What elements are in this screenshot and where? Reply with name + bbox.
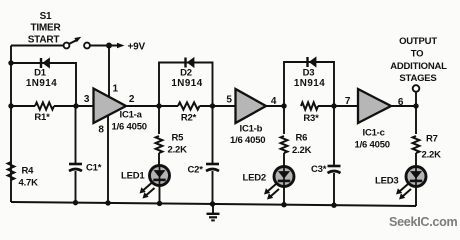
label S1 TIMER START	[28, 11, 62, 46]
left rail wire	[10, 46, 12, 203]
svg-text:2.2K: 2.2K	[422, 150, 442, 161]
wire: node 3 to pin 7	[318, 105, 358, 107]
op-amp buffer U1b IC1-b	[236, 89, 267, 123]
svg-text:R6: R6	[296, 133, 308, 144]
node: RC node 3	[331, 103, 336, 108]
label R5 2.2K	[168, 133, 188, 156]
label OUTPUT TO ADDITIONAL STAGES	[390, 36, 447, 84]
capacitor C1 column wire	[75, 106, 77, 164]
wire: IC1-b output	[266, 105, 284, 107]
svg-text:1/6 4050: 1/6 4050	[112, 122, 147, 133]
node: D1 top on left rail	[8, 60, 13, 65]
svg-text:C1*: C1*	[86, 163, 102, 174]
LED1	[150, 166, 170, 186]
svg-text:ADDITIONAL: ADDITIONAL	[390, 61, 447, 72]
svg-text:2.2K: 2.2K	[168, 145, 188, 156]
capacitor C2 column	[212, 106, 214, 164]
svg-text:R2*: R2*	[181, 113, 197, 124]
svg-text:1N914: 1N914	[294, 78, 325, 89]
svg-text:1/6 4050: 1/6 4050	[355, 140, 390, 151]
svg-text:SeekIC.com: SeekIC.com	[389, 215, 458, 229]
svg-text:IC1-b: IC1-b	[240, 124, 263, 135]
wire: D2 loop	[159, 63, 213, 107]
svg-text:OUTPUT: OUTPUT	[399, 36, 437, 47]
LED1 emission arrows	[140, 183, 155, 199]
node: stage 3 output	[413, 103, 418, 108]
svg-text:1: 1	[113, 84, 119, 95]
node: RC node 1 (R1/D1/C1/pin3)	[73, 103, 78, 108]
wire: switch feed from left rail	[11, 45, 64, 47]
node: C1 at bottom rail	[73, 200, 78, 205]
wire: R5 to LED1	[158, 153, 160, 166]
label IC1-b 1/6 4050	[230, 124, 265, 147]
svg-text:C3*: C3*	[311, 164, 327, 175]
svg-text:C2*: C2*	[188, 165, 204, 176]
wire: resistor R7 column	[415, 106, 417, 134]
capacitor C3	[328, 166, 341, 173]
wire: bottom ground rail	[11, 202, 416, 206]
label R6 2.2K	[292, 133, 312, 157]
svg-text:1N914: 1N914	[26, 78, 57, 89]
svg-text:1/6 4050: 1/6 4050	[230, 135, 265, 146]
wire: LED3 to bottom rail	[415, 186, 417, 206]
wire: resistor R5 column	[158, 106, 160, 134]
node: +9V junction	[106, 43, 112, 49]
label IC1-c 1/6 4050	[355, 128, 390, 151]
wire: D1 loop top	[11, 63, 76, 106]
resistor R3	[301, 102, 318, 109]
resistor R6	[281, 136, 288, 153]
wire: main rail stage 1	[11, 105, 35, 107]
capacitor C1	[69, 164, 82, 171]
node: left rail / main rail	[8, 103, 13, 108]
svg-text:R3*: R3*	[303, 113, 319, 124]
svg-text:STAGES: STAGES	[399, 73, 436, 84]
svg-text:7: 7	[345, 96, 351, 107]
svg-text:8: 8	[98, 125, 104, 136]
node: RC node 2	[210, 103, 215, 108]
label D3 1N914	[294, 68, 325, 90]
svg-text:2: 2	[129, 94, 135, 105]
resistor R7	[413, 136, 420, 153]
label D1 1N914	[26, 68, 57, 90]
node: LED2 at bottom rail	[281, 202, 286, 207]
svg-text:D2: D2	[180, 68, 192, 79]
output terminal	[413, 85, 420, 106]
node: stage 1 output	[156, 103, 161, 108]
resistor R1	[35, 102, 54, 109]
svg-text:IC1-c: IC1-c	[363, 128, 385, 139]
diode D2	[186, 58, 195, 68]
LED3	[406, 167, 426, 187]
svg-text:S1: S1	[40, 11, 52, 22]
diode D1	[41, 58, 50, 68]
resistor R5	[156, 136, 163, 153]
diode D3	[308, 57, 317, 67]
svg-text:LED3: LED3	[375, 176, 398, 187]
svg-text:R4: R4	[22, 166, 35, 177]
switch S1 (TIMER START)	[64, 37, 90, 49]
node: C3 at bottom rail	[331, 202, 336, 207]
arrow to +9V	[109, 43, 125, 49]
ground	[207, 204, 220, 220]
label R4 4.7K	[19, 166, 39, 189]
svg-text:R7: R7	[426, 134, 438, 145]
wire: LED2 to bottom rail	[283, 186, 285, 205]
svg-text:D1: D1	[34, 68, 47, 79]
op-amp buffer U1a IC1-a	[94, 89, 127, 124]
svg-text:IC1-a: IC1-a	[120, 110, 143, 121]
wire: LED1 to bottom rail	[159, 185, 161, 204]
capacitor C2	[206, 164, 219, 171]
svg-text:1N914: 1N914	[171, 78, 202, 89]
label IC1-a 1/6 4050	[112, 110, 147, 133]
wire: resistor R6 column	[283, 106, 285, 134]
wire: IC1-a output	[126, 105, 159, 107]
label R7 2.2K	[422, 134, 442, 161]
LED2 emission arrows	[264, 184, 279, 200]
svg-text:R5: R5	[172, 133, 185, 144]
wire: D3 loop	[284, 62, 334, 106]
svg-text:START: START	[28, 35, 60, 46]
node: stage 2 output	[281, 103, 286, 108]
wire: pin 8 to ground rail	[107, 116, 109, 204]
node: ground junction	[210, 201, 215, 206]
wire: switch to +9V junction	[90, 45, 109, 47]
wire: R1 to node	[54, 105, 94, 107]
svg-text:LED2: LED2	[243, 173, 266, 184]
svg-text:3: 3	[84, 94, 90, 105]
svg-text:LED1: LED1	[121, 171, 145, 182]
svg-text:TIMER: TIMER	[30, 23, 61, 34]
svg-text:5: 5	[226, 95, 232, 106]
resistor R2	[159, 105, 178, 107]
LED3 emission arrows	[396, 184, 411, 200]
svg-text:+9V: +9V	[128, 42, 146, 53]
resistor R4	[8, 162, 15, 180]
label D2 1N914	[171, 68, 202, 90]
op-amp buffer U1c IC1-c	[358, 89, 391, 123]
svg-text:2.2K: 2.2K	[292, 145, 312, 156]
svg-text:4.7K: 4.7K	[19, 178, 39, 189]
wire: pin 1 power line into IC1-a	[108, 46, 110, 98]
node: pin 8 at bottom rail	[105, 200, 110, 205]
wire: IC1-c output	[391, 105, 416, 107]
svg-text:R1*: R1*	[34, 112, 50, 123]
svg-text:TO: TO	[411, 49, 424, 60]
node: LED1 at bottom rail	[157, 201, 162, 206]
capacitor C3 column	[333, 106, 335, 166]
LED2	[274, 167, 294, 187]
svg-text:D3: D3	[303, 68, 315, 79]
